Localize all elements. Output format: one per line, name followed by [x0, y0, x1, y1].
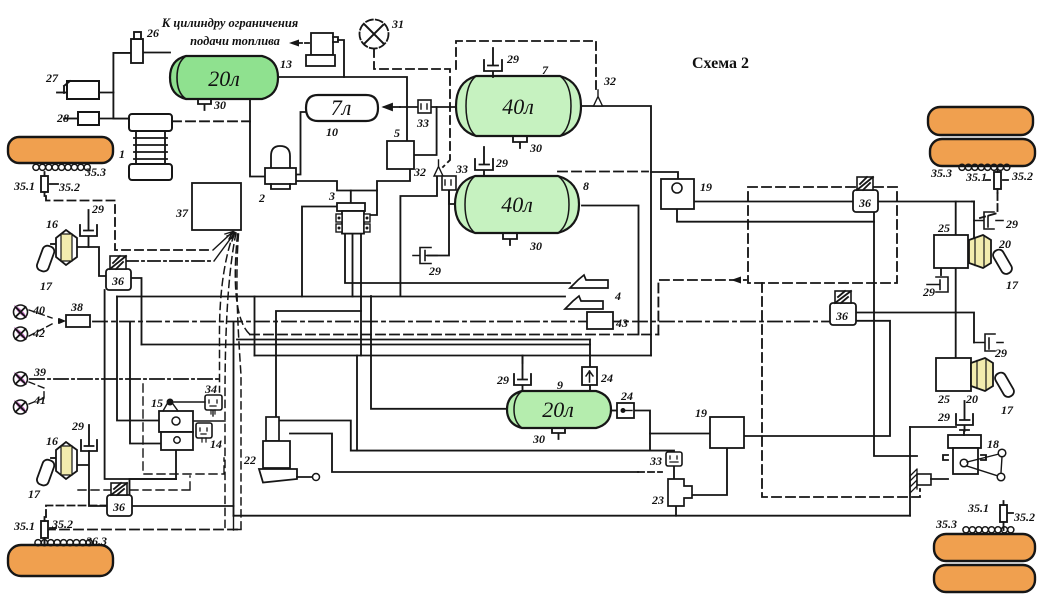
wire arrow into tank 7l	[384, 104, 400, 110]
wire branch to drain 29 rear right	[956, 313, 974, 343]
air tank 40l (pos 8, lower)	[455, 176, 579, 233]
wire hand brake feed x=910	[909, 427, 911, 516]
wheel front right upper	[928, 107, 1033, 135]
dashed frame segment lower	[78, 476, 190, 490]
svg-text:30: 30	[213, 98, 226, 112]
svg-text:35.3: 35.3	[930, 166, 952, 180]
lamp 41	[14, 400, 28, 414]
valve 29 on tank 8	[475, 147, 493, 176]
dashed drop x=762 to y=497	[762, 283, 920, 497]
spring above rear right wheels	[963, 527, 1014, 533]
svg-text:29: 29	[994, 346, 1007, 360]
check valve 32 arrow mid	[434, 160, 443, 176]
drain valve 29 rear right	[974, 334, 1003, 351]
pressure reducer 5	[387, 141, 414, 169]
svg-text:20л: 20л	[208, 66, 240, 91]
lever linkage of 18	[967, 449, 1006, 481]
svg-text:19: 19	[700, 180, 712, 194]
svg-text:35.3: 35.3	[84, 165, 106, 179]
svg-text:2: 2	[258, 191, 265, 205]
svg-text:3: 3	[328, 189, 335, 203]
wire y=427 into valve 29 and 18	[910, 426, 956, 428]
dashed loop from sensor 31	[374, 49, 450, 167]
dash-dot coil line 36 upper left to 37	[126, 260, 214, 262]
sensor 35.1 front left	[41, 172, 58, 196]
svg-text:30: 30	[532, 432, 545, 446]
solenoid 36 right top	[853, 177, 878, 212]
svg-text:36.3: 36.3	[85, 534, 107, 548]
wire 23 bottom drop	[675, 506, 677, 516]
svg-text:14: 14	[210, 437, 222, 451]
svg-text:17: 17	[40, 279, 53, 293]
svg-text:36: 36	[858, 196, 871, 210]
pressure switch 33 bottom	[666, 452, 682, 466]
silencer 17 lower	[36, 458, 56, 487]
diaphragm 20 rear right	[971, 358, 993, 391]
svg-text:27: 27	[45, 71, 59, 85]
svg-text:29: 29	[922, 285, 935, 299]
wire 22 lower output to rear	[290, 434, 638, 473]
wire tank 8 right output down	[582, 206, 639, 335]
solenoid 36 upper left	[106, 256, 131, 290]
svg-text:29: 29	[1005, 217, 1018, 231]
pushrod 17 front right	[991, 248, 1014, 276]
wire governor 2 to 7l tank	[296, 112, 307, 175]
svg-text:40: 40	[32, 303, 45, 317]
wire chamber 25 bottom to drain 29	[940, 268, 942, 275]
spring under front left wheel	[33, 164, 90, 170]
dashed bundle curve long left	[225, 233, 236, 530]
svg-text:36: 36	[111, 274, 124, 288]
wire check valve 32 feed	[400, 176, 437, 296]
svg-text:35.2: 35.2	[1011, 169, 1033, 183]
wire tank 12 to fuel valve	[278, 40, 344, 77]
svg-text:17: 17	[1001, 403, 1014, 417]
corner x=254.5	[254, 297, 256, 356]
fitting 30 under tank 8	[503, 233, 517, 245]
svg-text:Схема 2: Схема 2	[692, 55, 749, 72]
air tank 7l (pos 10)	[306, 95, 378, 121]
dashed sensor front right drop	[980, 193, 998, 218]
wire 36a drop x=874	[874, 212, 917, 456]
lamp 40 (control lamp)	[14, 305, 28, 319]
fitting 30 under tank 9	[552, 428, 565, 439]
wire 36b to drop x=890	[744, 321, 890, 436]
feed to check valve 24 and tank 9	[589, 340, 591, 392]
safety valve 32 arrow right	[594, 90, 603, 106]
drain valve 29 upper left	[80, 210, 97, 247]
svg-text:7: 7	[542, 63, 549, 77]
drier 16 lower with heater	[56, 442, 77, 479]
wire silencer 17 upper to 16	[51, 243, 56, 245]
svg-text:29: 29	[71, 419, 84, 433]
wire reducer 5 bottom to valve 3 right	[371, 169, 410, 215]
brake signal valve assembly: box A	[159, 411, 193, 432]
svg-text:1: 1	[119, 147, 125, 161]
svg-text:10: 10	[326, 125, 338, 139]
svg-text:16: 16	[46, 434, 58, 448]
svg-text:30: 30	[529, 141, 542, 155]
svg-text:23: 23	[651, 493, 664, 507]
tank 9 left feed	[371, 296, 507, 409]
svg-text:35.1: 35.1	[13, 179, 35, 193]
sensor 35.1 rear right	[1000, 501, 1013, 527]
dashed bundle curve to 34	[219, 232, 234, 392]
long bottom wire y=515	[234, 515, 911, 517]
svg-text:17: 17	[28, 487, 41, 501]
wire silencer 17 lower to 16	[51, 457, 56, 459]
fuel cut valve (to fuel limiter)	[306, 33, 338, 66]
svg-text:К цилиндру ограничения: К цилиндру ограничения	[161, 16, 299, 30]
wire 24 to drop x=650	[634, 411, 650, 451]
svg-text:7л: 7л	[331, 95, 352, 120]
nest vertical x=117	[117, 297, 159, 421]
svg-text:9: 9	[557, 378, 563, 392]
wire junction 33 down to reducer 5 right	[414, 107, 437, 155]
svg-text:5: 5	[394, 126, 400, 140]
wire 27 right to node	[99, 92, 113, 94]
wire 19b bottom to valve 23	[692, 448, 727, 495]
svg-text:35.2: 35.2	[51, 517, 73, 531]
svg-text:41: 41	[33, 393, 46, 407]
unit 28	[78, 112, 99, 125]
brake crane part 4 upper shape	[570, 275, 608, 288]
wire x=955.7 down to rear chamber	[955, 202, 957, 359]
drain valve 29 front right (bottom)	[927, 277, 948, 292]
svg-text:29: 29	[496, 373, 509, 387]
check valve 33 top	[418, 100, 431, 113]
drain valve 29 lower left	[81, 425, 97, 451]
valve 29 left of tank9 stem	[522, 356, 524, 364]
wire governor 2 to valve 3 top	[296, 181, 377, 191]
wire 27 stub left	[57, 92, 67, 94]
link 15 to 34	[174, 401, 205, 403]
wire 36 upper right to y344	[131, 278, 142, 345]
drain valve 29 mid (below tank 8 left)	[413, 248, 437, 264]
svg-text:36: 36	[835, 309, 848, 323]
svg-text:40л: 40л	[501, 192, 533, 217]
svg-text:34: 34	[204, 382, 217, 396]
wire valve 3 to brake valve 22	[276, 311, 361, 417]
sensor 34	[205, 395, 222, 414]
wire 33c to 23	[673, 466, 675, 479]
solid line y=339.5	[237, 339, 590, 341]
svg-text:13: 13	[280, 57, 292, 71]
svg-text:35.1: 35.1	[13, 519, 35, 533]
svg-text:33: 33	[455, 162, 468, 176]
dashed rectangle right middle	[748, 187, 897, 283]
arrow to fuel limiter cylinder	[289, 40, 309, 47]
air tank 20l (pos 12, top left)	[170, 56, 278, 99]
wheel rear right lower	[934, 565, 1035, 592]
dashed sensor rear left to 36 lower	[45, 506, 108, 553]
svg-text:38: 38	[70, 300, 83, 314]
wire valve 3 down to tank 9 feed line	[360, 234, 362, 356]
svg-text:37: 37	[175, 206, 189, 220]
wire 36 lower left to x=233.5	[132, 505, 234, 507]
wire 28 right to node	[99, 118, 113, 120]
silencer 17 upper	[36, 244, 56, 273]
brake valve 22 with pedal	[259, 417, 320, 483]
long nest line y=296.5 to crane shape 4b	[117, 296, 565, 298]
diaphragm 20 front right	[969, 235, 991, 268]
unit 27 (pressure drop indicator)	[64, 81, 99, 99]
svg-text:33: 33	[416, 116, 429, 130]
svg-text:25: 25	[937, 221, 950, 235]
buzzer 38	[59, 315, 90, 327]
nest vertical x=104.6	[105, 290, 176, 479]
wire junction to condensate valve 19	[651, 172, 678, 179]
dashed line over tank 40-1	[456, 41, 596, 90]
svg-text:40л: 40л	[502, 94, 534, 119]
wheel rear left (bottom)	[8, 545, 113, 576]
svg-text:20: 20	[965, 392, 978, 406]
wire tank 40-1 right to safety 32 and down	[581, 106, 651, 356]
solenoid 36 lower left	[107, 483, 132, 516]
svg-text:20л: 20л	[542, 397, 574, 422]
wire 26 to tank 12	[143, 52, 170, 54]
wire 36 mid right to x=955.7	[856, 312, 956, 314]
dashed drop sensor front left wheel	[46, 196, 213, 250]
valve 26 (fuse valve top left)	[131, 32, 143, 63]
wire box B bottom drop	[175, 450, 177, 479]
fitting 30 under tank 7	[513, 136, 527, 148]
wire 36 right to chambers	[878, 201, 972, 203]
spring under front right wheels	[959, 164, 1010, 170]
valve 29 left of tank 9	[514, 356, 531, 391]
dashed line y=334.5	[250, 334, 658, 336]
pedal unit 43	[587, 312, 613, 329]
wire 26 down to 27/28 node	[113, 53, 131, 119]
dashed line above tank 8	[558, 171, 648, 173]
wire compressor down to governor 2	[250, 122, 265, 177]
wire y=433.5 into 19 bottom	[650, 433, 710, 435]
sensor 35.1 rear left	[41, 517, 56, 542]
brake chamber 25 front right	[934, 235, 968, 268]
four-circuit protection valve 3	[336, 203, 370, 234]
svg-text:29: 29	[506, 52, 519, 66]
svg-text:29: 29	[91, 202, 104, 216]
single protection valve 24 (after tank 9)	[617, 403, 634, 418]
brake crane part 4 lower shape	[565, 296, 603, 309]
wire drop x=357 to rear line	[356, 356, 358, 451]
junction fix	[972, 201, 974, 203]
hand brake valve 18	[943, 430, 986, 474]
svg-text:43: 43	[615, 316, 628, 330]
wire valve 3 to crane 4b line	[352, 234, 354, 297]
enclosure bottom corner piece	[234, 516, 242, 530]
wire valve 3 to crane shape 4a	[345, 234, 570, 283]
svg-text:32: 32	[603, 74, 616, 88]
switch 15	[163, 399, 178, 412]
svg-text:35.1: 35.1	[965, 170, 987, 184]
dashed frame around lower assembly	[143, 384, 224, 474]
wire drop to chamber 20 front right	[973, 202, 975, 239]
svg-text:39: 39	[33, 365, 46, 379]
dashed link up to trailer enclosure	[658, 280, 746, 335]
brake signal valve assembly: box B	[161, 432, 193, 450]
svg-text:19: 19	[695, 406, 707, 420]
dashed sensor rear right drop	[1003, 527, 1005, 530]
svg-text:36: 36	[112, 500, 125, 514]
wall anchor with hatch	[910, 469, 948, 493]
dashed lamp 40/42 to 38	[29, 310, 52, 336]
wheel front left	[8, 137, 113, 163]
svg-text:32: 32	[413, 165, 426, 179]
wire 19 top to solenoid 36 right	[694, 201, 853, 203]
lamp 39	[14, 372, 28, 386]
dashed lamp 39/41 joiner	[29, 382, 44, 404]
svg-text:35.2: 35.2	[1013, 510, 1035, 524]
sensor 14	[196, 423, 212, 442]
dash-dot lamp 39 line	[30, 378, 219, 380]
wire 22 upper output to rear	[279, 421, 674, 453]
wire 7l right to check valve 33	[400, 106, 418, 108]
svg-text:15: 15	[151, 396, 163, 410]
svg-text:28: 28	[56, 111, 69, 125]
ECU block 37	[192, 183, 241, 230]
svg-text:29: 29	[495, 156, 508, 170]
air tank 20l (pos 9, bottom)	[507, 391, 611, 428]
svg-text:30: 30	[529, 239, 542, 253]
brake chamber 25 rear right	[936, 358, 971, 391]
dashed arrow into enclosure	[731, 277, 741, 284]
svg-text:25: 25	[937, 392, 950, 406]
valve 23	[668, 479, 692, 506]
wheel rear right upper	[934, 534, 1035, 561]
svg-text:4: 4	[614, 289, 621, 303]
svg-text:31: 31	[391, 17, 404, 31]
dash-dot line 38 to solenoid 36b	[93, 321, 830, 323]
long wire y=344.5 to check valve 24 drop	[142, 344, 591, 346]
svg-text:33: 33	[649, 454, 662, 468]
svg-text:24: 24	[600, 371, 613, 385]
svg-text:22: 22	[243, 453, 256, 467]
svg-text:42: 42	[32, 326, 45, 340]
spring above rear left wheel	[35, 540, 92, 546]
wire tank 9 right to 24	[611, 410, 617, 412]
svg-text:20: 20	[998, 237, 1011, 251]
wire 28 stub left	[64, 118, 78, 120]
condensate valve 19 bottom	[710, 417, 744, 448]
drain valve 29 front right (top)	[974, 212, 1003, 229]
governor 2 (pressure regulator)	[265, 146, 296, 189]
check valve 24 (above tank 9)	[582, 367, 597, 385]
wire 16 lower loop to 36 lower	[77, 451, 107, 506]
check valve 33 mid	[442, 176, 456, 190]
svg-text:29: 29	[937, 410, 950, 424]
wire 33 mid to tank 8	[449, 190, 455, 204]
pressure sensor 31 (crossed circle)	[360, 20, 389, 49]
wire box A to harness	[193, 420, 225, 422]
wire 33 mid down to drain 29	[428, 190, 449, 256]
wire compressor to condensate line (dashed)	[172, 120, 250, 122]
condensate valve 19 top	[661, 179, 694, 209]
dashed bundle curve to dashed line 336	[235, 234, 250, 335]
svg-text:24: 24	[620, 389, 633, 403]
svg-text:29: 29	[428, 264, 441, 278]
wire 3 left to nest	[302, 207, 337, 297]
dashed line y=529.5 bottom left	[46, 529, 241, 531]
wire boxB drop corner into 36 lower	[130, 479, 177, 495]
wire 33 to tank 40-1	[431, 106, 456, 108]
stub into valve 3 top	[350, 191, 352, 204]
svg-text:26: 26	[146, 26, 159, 40]
drain valve 29 above hand brake	[956, 401, 973, 431]
wire 16 upper to solenoid 36	[77, 247, 106, 276]
drier 16 upper with heater	[56, 230, 77, 265]
vertical x=233.5	[233, 322, 235, 516]
arrow from coil line into ECU 37	[214, 233, 235, 262]
svg-text:35.3: 35.3	[935, 517, 957, 531]
compressor (pos 1 group)	[129, 114, 172, 180]
solenoid 36 right mid	[830, 291, 856, 325]
pushrod 17 rear right	[993, 371, 1016, 399]
svg-text:подачи топлива: подачи топлива	[190, 34, 280, 48]
fitting 30 under tank 12	[198, 99, 211, 110]
svg-text:16: 16	[46, 217, 58, 231]
wire 34 pin drop	[212, 410, 214, 416]
svg-text:18: 18	[987, 437, 999, 451]
nest vertical x=130	[130, 322, 161, 444]
arrow bundle into ECU 37	[213, 232, 233, 251]
svg-text:35.2: 35.2	[58, 180, 80, 194]
valve 29 on tank 7	[484, 48, 502, 77]
svg-text:8: 8	[583, 179, 589, 193]
wheel front right lower	[930, 139, 1035, 166]
wire fuel valve node down to reducer 5	[344, 77, 407, 142]
svg-text:35.1: 35.1	[967, 501, 989, 515]
long wire y=355.5	[255, 355, 652, 357]
wire condensate drop to tank 12	[249, 99, 251, 121]
lamp 42	[14, 327, 28, 341]
wire 19 bottom stub	[677, 209, 874, 222]
dashed bundle curve to lower right	[237, 234, 241, 529]
air tank 40l (pos 7, upper)	[456, 76, 581, 136]
svg-text:17: 17	[1006, 278, 1019, 292]
sensor 35.1 front right	[986, 168, 1008, 193]
